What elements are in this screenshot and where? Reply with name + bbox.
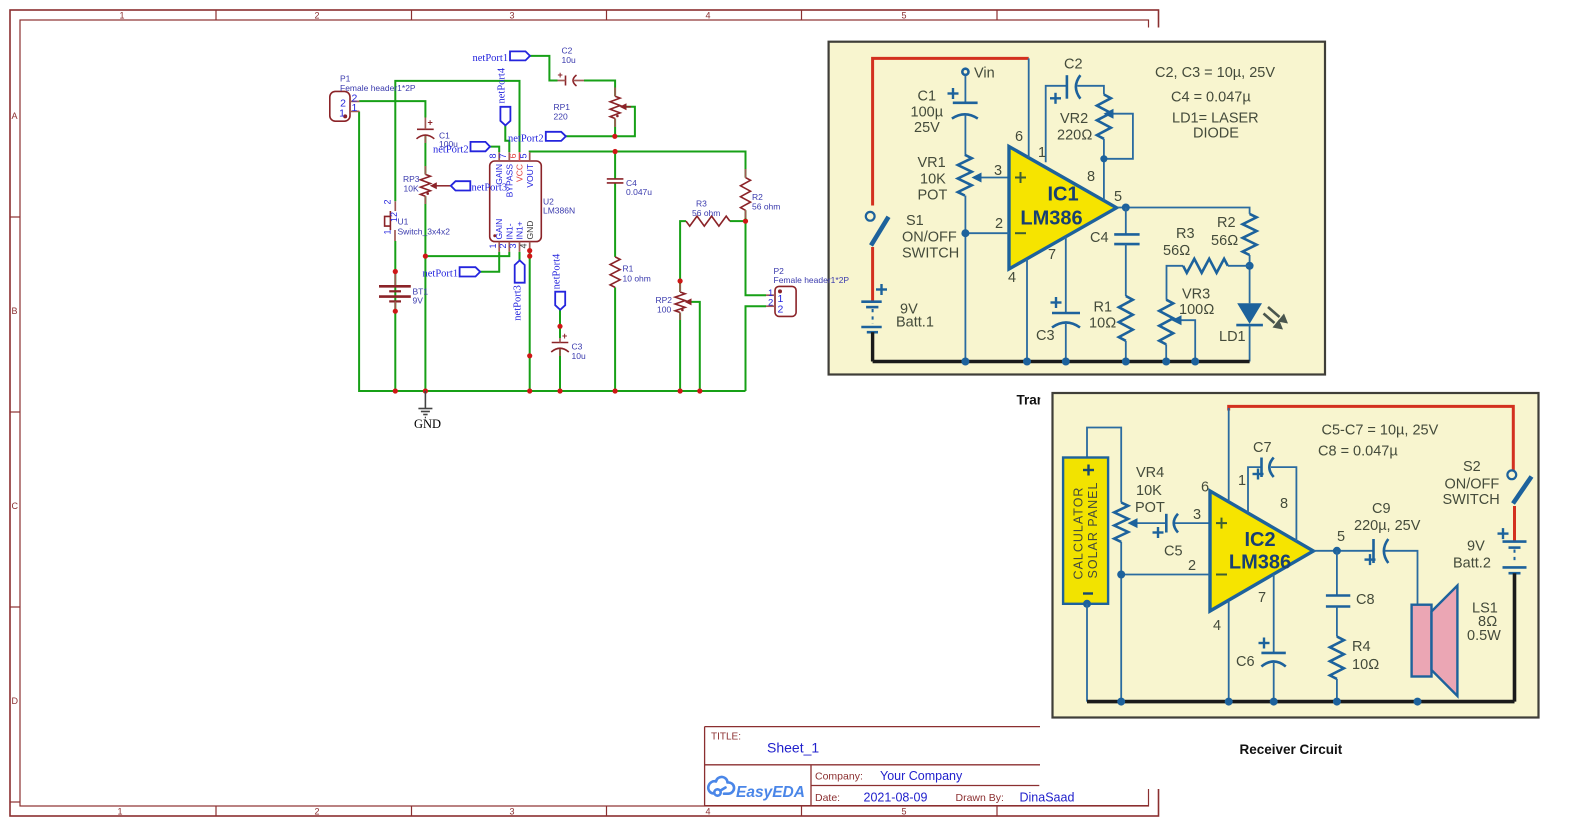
svg-text:2: 2 [314, 807, 319, 817]
junction panel minus [1083, 600, 1091, 608]
svg-text:10K: 10K [404, 184, 419, 194]
net port netPort4 lower [555, 292, 565, 310]
svg-text:netPort2: netPort2 [433, 144, 469, 155]
svg-text:IN1-: IN1- [504, 223, 514, 239]
svg-text:IN1+: IN1+ [515, 221, 525, 239]
svg-text:8: 8 [488, 153, 498, 158]
receiver circuit photo inset [1040, 377, 1576, 790]
svg-text:GAIN: GAIN [494, 219, 504, 240]
svg-text:4: 4 [518, 243, 528, 248]
svg-text:D: D [12, 696, 19, 706]
switch U1 Switch_3x4x2 [394, 201, 396, 211]
potentiometer VR2 220 ohm [1097, 95, 1111, 139]
svg-text:220µ, 25V: 220µ, 25V [1354, 518, 1421, 534]
wire VR1 bottom rail [964, 196, 966, 362]
EasyEDA schematic [330, 46, 850, 432]
capacitor C9 220u 25V [1372, 539, 1375, 563]
wire Vin to C1 [964, 75, 966, 103]
IC U2 LM386N [490, 161, 542, 242]
svg-text:1: 1 [383, 229, 393, 234]
wire R2 to R3 node [745, 210, 747, 221]
wire RP1 wiper loop [615, 107, 635, 137]
svg-text:2: 2 [778, 304, 784, 316]
svg-text:8: 8 [1280, 496, 1288, 512]
svg-text:10K: 10K [1136, 483, 1162, 499]
potentiometer RP3 10K [420, 174, 430, 196]
junction R2/R3 [1246, 262, 1254, 270]
svg-text:2: 2 [498, 243, 508, 248]
svg-text:LM386N: LM386N [543, 206, 575, 216]
frame column ticks top [216, 10, 997, 20]
svg-text:GND: GND [525, 221, 535, 240]
svg-text:netPort2: netPort2 [508, 133, 544, 144]
VR3 wiper to ground [1178, 320, 1195, 361]
svg-text:2: 2 [383, 199, 393, 204]
svg-text:Batt.2: Batt.2 [1453, 556, 1491, 572]
svg-text:25V: 25V [914, 120, 940, 136]
svg-text:1: 1 [1038, 145, 1046, 161]
svg-text:6: 6 [1201, 480, 1209, 496]
svg-text:1: 1 [1238, 473, 1246, 489]
wire C8 to R4 [1336, 607, 1338, 637]
frame row ticks left [10, 217, 20, 802]
wire R1 to ground [614, 287, 616, 391]
EasyEDA logo cloud [708, 777, 734, 796]
svg-text:C9: C9 [1372, 501, 1391, 517]
svg-text:3: 3 [1193, 507, 1201, 523]
potentiometer VR3 100 ohm [1159, 300, 1173, 345]
wire RP2 wiper to ground [691, 302, 700, 391]
op-amp IC1 LM386 [1009, 147, 1117, 270]
wire U2 pin2 to node [425, 252, 509, 256]
svg-text:IC2: IC2 [1244, 529, 1275, 551]
svg-text:+: + [428, 118, 433, 128]
pin 1 wire to C2 [1046, 86, 1067, 163]
svg-text:100Ω: 100Ω [1179, 302, 1214, 318]
wire battery to ground rail [871, 332, 874, 361]
net port netPort1 top [510, 51, 530, 60]
svg-text:2: 2 [314, 11, 319, 21]
svg-text:10Ω: 10Ω [1089, 316, 1116, 332]
VR2 wiper loop to pin 8 node [1104, 114, 1133, 159]
svg-text:EasyEDA: EasyEDA [736, 784, 805, 801]
resistor R2 56 ohm [1243, 214, 1257, 255]
battery Batt.2 9V [1498, 528, 1509, 539]
svg-text:10u: 10u [562, 55, 576, 65]
pin 5 output wire [1313, 550, 1373, 552]
junction output node [1333, 547, 1341, 555]
svg-text:VR1: VR1 [918, 155, 946, 171]
sheet border frame outer [10, 10, 1159, 816]
svg-text:netPort3: netPort3 [513, 285, 524, 321]
svg-text:netPort4: netPort4 [497, 67, 508, 103]
svg-text:C6: C6 [1236, 654, 1255, 670]
svg-text:10u: 10u [572, 351, 586, 361]
ground symbol GND [418, 391, 432, 418]
svg-text:VCC: VCC [515, 164, 525, 182]
svg-text:RP3: RP3 [403, 174, 420, 184]
wire C2 to VR2 [1077, 86, 1104, 95]
frame column numbers bottom [117, 807, 906, 817]
switch S1 ON/OFF [866, 212, 875, 221]
frame row letters [12, 111, 19, 706]
wire U2 pin4 to ground [529, 252, 531, 391]
svg-text:C2: C2 [562, 46, 573, 56]
wire C4 to R1 [614, 183, 616, 257]
svg-text:2: 2 [768, 298, 773, 309]
wire C4 branch [614, 152, 616, 179]
wire ground to P2 pin2 [746, 306, 767, 391]
capacitor C3 [1052, 312, 1080, 315]
pin 6 wire [1028, 58, 1030, 157]
svg-text:7: 7 [498, 153, 508, 158]
ground junction dots [1117, 698, 1421, 706]
net port netPort4 upper [500, 107, 510, 126]
junction output node [1122, 204, 1130, 212]
wire C9 to speaker [1385, 551, 1418, 605]
svg-text:LD1: LD1 [1219, 329, 1246, 345]
wire VR3 bottom to ground [1165, 344, 1167, 361]
speaker LS1 8 ohm 0.5W [1412, 605, 1432, 677]
svg-text:100: 100 [657, 305, 671, 315]
wire node to P2 pin1 [746, 221, 767, 295]
svg-text:3: 3 [994, 163, 1002, 179]
solar panel wire to VR4 [1087, 428, 1121, 503]
transmitter red supply wire [873, 58, 1029, 205]
wire RP3 to ground [424, 196, 426, 391]
frame column numbers top [119, 11, 906, 21]
svg-text:4: 4 [1008, 270, 1016, 286]
svg-text:2021-08-09: 2021-08-09 [864, 791, 928, 805]
svg-text:SWITCH: SWITCH [902, 246, 959, 262]
wire P1 pin2 to C1 [359, 101, 425, 117]
svg-text:Switch_3x4x2: Switch_3x4x2 [398, 227, 451, 237]
svg-text:+: + [562, 331, 567, 341]
svg-text:Sheet_1: Sheet_1 [767, 740, 819, 756]
svg-text:C5-C7 = 10µ, 25V: C5-C7 = 10µ, 25V [1322, 423, 1439, 439]
pin 4 wire [1026, 259, 1028, 362]
svg-text:B: B [12, 306, 18, 316]
svg-text:C4: C4 [1090, 230, 1109, 246]
battery BT1 9V [394, 272, 396, 287]
receiver red supply wire [1229, 406, 1514, 470]
wire C4 to R1 [1125, 244, 1127, 296]
wire RP2 bottom to ground [679, 313, 681, 392]
wire C1 to RP3 [424, 135, 426, 175]
pin 1 wire to C7 [1248, 467, 1262, 513]
svg-text:C2: C2 [1064, 57, 1083, 73]
wire C7 to pin 8 [1271, 467, 1296, 541]
svg-text:5: 5 [1114, 189, 1122, 205]
svg-text:3: 3 [508, 243, 518, 248]
wire VR4 bottom to ground [1120, 542, 1122, 702]
svg-text:GND: GND [414, 417, 441, 431]
svg-text:POT: POT [1135, 500, 1165, 516]
wire VR2 bottom to pin8 [1103, 139, 1105, 201]
svg-text:netPort1: netPort1 [423, 268, 459, 279]
net port netPort2 left [471, 142, 491, 151]
title block [705, 727, 1149, 806]
wire battery to ground [394, 241, 396, 391]
potentiometer VR1 10K POT [958, 155, 972, 196]
svg-text:Female header1*2P: Female header1*2P [774, 275, 850, 285]
svg-text:C1: C1 [918, 89, 937, 105]
svg-text:+: + [558, 70, 563, 80]
svg-text:R4: R4 [1352, 639, 1371, 655]
svg-text:VOUT: VOUT [525, 164, 535, 188]
svg-text:220Ω: 220Ω [1057, 128, 1092, 144]
svg-text:ON/OFF: ON/OFF [902, 229, 957, 245]
svg-text:2: 2 [1188, 558, 1196, 574]
capacitor C6 [1261, 652, 1285, 655]
wire R4 to ground [1336, 679, 1338, 702]
svg-text:POT: POT [918, 188, 948, 204]
net port netPort1 lower [460, 267, 481, 276]
wire netPort1 to C2 [530, 56, 558, 81]
resistor R1 10 ohm [1119, 296, 1133, 341]
svg-text:C3: C3 [1036, 328, 1055, 344]
pin 2 wire [1121, 574, 1210, 576]
svg-text:9V: 9V [413, 296, 424, 306]
resistor R2 56 ohm [741, 178, 751, 211]
wire RP1 bottom to node [614, 119, 616, 137]
svg-text:SWITCH: SWITCH [1443, 492, 1500, 508]
svg-text:Batt.1: Batt.1 [896, 315, 934, 331]
plus input marker [1015, 172, 1026, 183]
svg-text:netPort1: netPort1 [473, 53, 509, 64]
junction VR2/pin8 [1100, 155, 1107, 162]
resistor R4 10 ohm [1330, 637, 1344, 679]
svg-text:Vin: Vin [974, 66, 995, 82]
wire R1 to ground [1125, 341, 1127, 362]
potentiometer RP1 220 [610, 96, 620, 118]
svg-text:CALCULATOR: CALCULATOR [1072, 487, 1086, 580]
svg-text:Drawn By:: Drawn By: [956, 792, 1004, 804]
capacitor C1 100u 25V [953, 102, 978, 105]
pin 7 wire [1065, 237, 1067, 313]
svg-text:3: 3 [509, 807, 514, 817]
minus input marker [1216, 574, 1227, 576]
svg-text:RP2: RP2 [656, 295, 673, 305]
wire switch to battery [871, 247, 874, 301]
laser diode LD1 [1237, 303, 1262, 324]
svg-text:RP1: RP1 [554, 102, 571, 112]
svg-text:1: 1 [339, 107, 345, 119]
svg-text:SOLAR PANEL: SOLAR PANEL [1086, 482, 1100, 579]
pin 4 wire [1228, 600, 1230, 701]
wire C2 to RP1 [584, 81, 615, 97]
svg-text:netPort4: netPort4 [552, 253, 563, 289]
switch S2 ON/OFF [1507, 470, 1516, 479]
svg-text:C8 = 0.047µ: C8 = 0.047µ [1318, 444, 1398, 460]
svg-text:R2: R2 [1217, 215, 1236, 231]
svg-text:1: 1 [352, 102, 358, 114]
pin 6 wire [1228, 408, 1230, 502]
svg-text:6: 6 [508, 153, 518, 158]
svg-text:A: A [12, 111, 18, 121]
svg-text:Company:: Company: [815, 771, 863, 783]
resistor R3 56 ohm [1183, 259, 1228, 273]
svg-text:R1: R1 [1094, 300, 1113, 316]
wire netPort4 to U2 pin7 [505, 125, 509, 152]
wire netPort2 to RP1 node [566, 135, 615, 137]
svg-text:10K: 10K [920, 171, 946, 187]
ground rail [873, 360, 1250, 364]
svg-text:R3: R3 [696, 199, 707, 209]
connector P2 Female header1*2P [775, 286, 796, 316]
svg-text:C: C [12, 501, 19, 511]
svg-text:TITLE:: TITLE: [711, 732, 741, 743]
wire netPort4 to C3 [559, 310, 561, 339]
wire C1 to VR1 [964, 115, 966, 155]
svg-text:9V: 9V [1467, 539, 1485, 555]
svg-text:R1: R1 [623, 264, 634, 274]
plus input marker [1216, 518, 1227, 529]
svg-text:LM386: LM386 [1020, 208, 1082, 230]
svg-text:5: 5 [518, 153, 528, 158]
svg-text:C8: C8 [1356, 592, 1375, 608]
wire U2 pin1 to netPort1 [480, 252, 499, 272]
resistor R3 56 ohm [686, 216, 730, 226]
junction dots [393, 134, 748, 394]
capacitor C4 0.047u [607, 178, 624, 180]
wire C3 to ground [559, 348, 561, 391]
svg-text:4: 4 [705, 807, 710, 817]
svg-text:4: 4 [705, 11, 710, 21]
wire R3 right to node [730, 220, 746, 222]
svg-text:0.5W: 0.5W [1467, 628, 1501, 644]
wire output to C4 [1125, 208, 1127, 235]
svg-text:56Ω: 56Ω [1163, 243, 1190, 259]
svg-text:56Ω: 56Ω [1211, 233, 1238, 249]
wire battery to ground [1513, 573, 1517, 701]
svg-text:VR4: VR4 [1136, 465, 1164, 481]
ground rail [1087, 700, 1515, 704]
op-amp IC2 LM386 [1210, 491, 1313, 611]
capacitor C8 [1326, 594, 1350, 597]
VR4 wiper to C5 [1134, 522, 1166, 524]
svg-text:VR3: VR3 [1182, 287, 1210, 303]
svg-text:100µ: 100µ [911, 104, 944, 120]
wire R2 to LD1 node [1249, 255, 1251, 303]
net port netPort3 at RP3 [451, 181, 471, 190]
wire C3 to ground [1065, 324, 1067, 362]
svg-text:3: 3 [509, 11, 514, 21]
wire C5 to pin 3 [1175, 522, 1210, 524]
svg-text:8: 8 [1087, 169, 1095, 185]
wire U2 pin3 to netPort3 [519, 252, 521, 260]
capacitor C2 [1066, 75, 1069, 99]
pin 5 output wire [1118, 208, 1250, 214]
svg-text:P1: P1 [340, 74, 351, 84]
svg-text:7: 7 [1258, 590, 1266, 606]
svg-text:1: 1 [488, 243, 498, 248]
wire U2 pin5 VOUT bus [530, 152, 746, 178]
wire panel to ground [1086, 604, 1088, 702]
wire netPort2 to U2 pin8 [490, 147, 499, 153]
svg-text:C4 = 0.047µ: C4 = 0.047µ [1171, 90, 1251, 106]
svg-text:Date:: Date: [815, 792, 840, 804]
potentiometer RP2 100 [675, 292, 685, 313]
svg-text:4: 4 [1213, 618, 1221, 634]
svg-text:7: 7 [1048, 247, 1056, 263]
pin 7 wire [1273, 574, 1275, 653]
frame column ticks bottom [216, 806, 997, 816]
svg-text:IC1: IC1 [1047, 184, 1078, 206]
svg-text:DinaSaad: DinaSaad [1020, 791, 1075, 805]
capacitor C2 10u [565, 76, 567, 86]
capacitor C1 100u [417, 128, 434, 130]
wire R3 left to RP2 [680, 221, 686, 292]
svg-text:10Ω: 10Ω [1352, 657, 1379, 673]
svg-text:C3: C3 [572, 342, 583, 352]
svg-text:5: 5 [901, 11, 906, 21]
svg-text:DIODE: DIODE [1193, 126, 1239, 142]
svg-text:U1: U1 [398, 217, 409, 227]
svg-text:Female header1*2P: Female header1*2P [340, 83, 416, 93]
svg-text:VR2: VR2 [1060, 111, 1088, 127]
minus input marker [1015, 232, 1026, 234]
svg-text:S1: S1 [906, 213, 924, 229]
wire P1 pin1 down [359, 112, 745, 392]
svg-text:C2, C3 = 10µ, 25V: C2, C3 = 10µ, 25V [1155, 65, 1275, 81]
sheet border frame inner [20, 20, 1149, 806]
capacitor C7 [1260, 458, 1263, 478]
LD1 emission arrows [1264, 307, 1289, 330]
svg-text:C7: C7 [1253, 440, 1272, 456]
svg-text:LM386: LM386 [1229, 552, 1291, 574]
junction pin2/VR1 [961, 229, 969, 237]
svg-text:netPort3: netPort3 [472, 182, 508, 193]
svg-text:5: 5 [901, 807, 906, 817]
wire output to C8 [1336, 551, 1338, 596]
net port netPort2 middle [546, 132, 566, 141]
transmitter circuit photo inset [818, 28, 1460, 416]
svg-text:56 ohm: 56 ohm [692, 208, 720, 218]
svg-text:Your Company: Your Company [880, 769, 963, 783]
svg-text:R2: R2 [752, 192, 763, 202]
svg-text:C5: C5 [1164, 544, 1183, 560]
ground junction dots [961, 358, 1199, 366]
capacitor C3 10u [552, 342, 569, 344]
pin 2 wire [965, 232, 1009, 234]
svg-text:LD1= LASER: LD1= LASER [1172, 111, 1259, 127]
svg-text:5: 5 [1337, 529, 1345, 545]
junction pin2/VR4 [1117, 571, 1125, 579]
solar panel CALCULATOR SOLAR PANEL [1063, 458, 1108, 604]
svg-text:220: 220 [554, 112, 568, 122]
resistor R1 10 ohm [610, 257, 620, 288]
svg-text:ON/OFF: ON/OFF [1445, 476, 1500, 492]
svg-text:1: 1 [119, 11, 124, 21]
capacitor C4 [1114, 233, 1139, 236]
wire switch top to U2 pin6 [395, 81, 519, 201]
battery Batt.1 9V [876, 284, 887, 295]
svg-text:0.047u: 0.047u [626, 187, 652, 197]
wire switch to battery [1513, 506, 1516, 542]
svg-text:6: 6 [1015, 129, 1023, 145]
svg-text:Receiver Circuit: Receiver Circuit [1240, 742, 1343, 757]
svg-text:10 ohm: 10 ohm [623, 274, 651, 284]
svg-text:R3: R3 [1176, 226, 1195, 242]
svg-text:S2: S2 [1463, 459, 1481, 475]
net port netPort3 below pin3 [515, 260, 525, 282]
terminal Vin [962, 69, 968, 75]
svg-text:2: 2 [995, 216, 1003, 232]
capacitor C5 [1165, 514, 1168, 533]
potentiometer VR4 10K POT [1114, 503, 1128, 542]
connector P1 Female header1*2P [330, 91, 350, 121]
